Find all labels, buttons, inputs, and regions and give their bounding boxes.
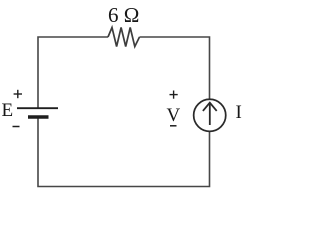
- current source I: arrow: [203, 103, 217, 125]
- battery E: positive plate: [17, 107, 58, 109]
- plus sign (V): [170, 91, 178, 99]
- wire left-bottom segment: [38, 119, 210, 187]
- resistor R (6 ohm): [108, 28, 140, 47]
- plus sign (battery): [14, 90, 22, 98]
- battery E: negative plate: [28, 115, 49, 118]
- wire top-left segment: [38, 37, 108, 108]
- svg-text:E: E: [2, 100, 14, 121]
- minus sign (battery): [13, 126, 20, 128]
- svg-text:6 Ω: 6 Ω: [108, 3, 139, 27]
- minus sign (V): [170, 125, 177, 127]
- current source I: circle: [194, 99, 226, 131]
- wire top-right segment: [140, 37, 210, 99]
- svg-text:V: V: [167, 105, 181, 126]
- svg-text:I: I: [236, 102, 242, 123]
